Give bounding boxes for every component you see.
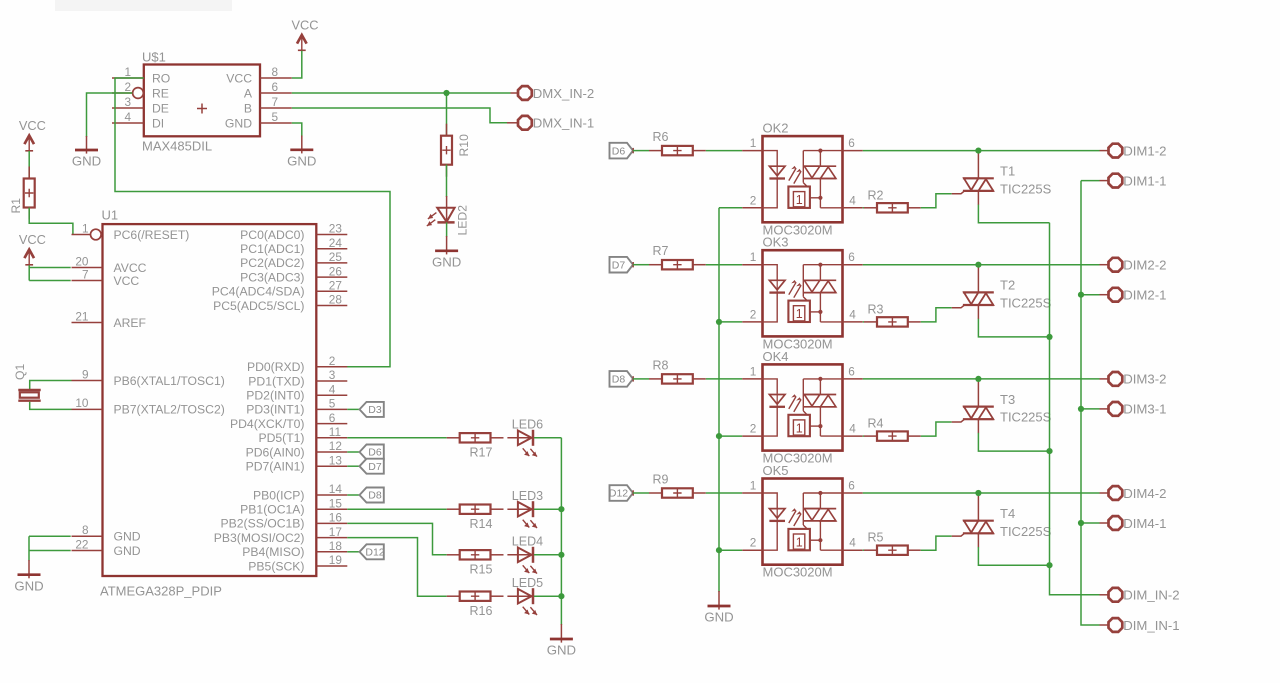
resistor R2	[864, 207, 877, 209]
junction on DIM_IN-2 bus	[1046, 562, 1052, 568]
resistor R1	[28, 167, 30, 179]
svg-text:1: 1	[796, 536, 803, 550]
svg-text:2: 2	[329, 354, 336, 368]
svg-text:T1: T1	[1000, 164, 1015, 179]
triac T2 TIC225S	[963, 265, 1052, 319]
svg-text:11: 11	[329, 425, 341, 439]
svg-text:DIM4-1: DIM4-1	[1123, 516, 1166, 531]
svg-text:VCC: VCC	[226, 71, 252, 85]
svg-text:RO: RO	[152, 71, 170, 85]
triac T1 TIC225S	[963, 151, 1052, 205]
svg-text:GND: GND	[114, 530, 141, 544]
svg-text:7: 7	[82, 267, 89, 281]
svg-text:PD4(XCK/T0): PD4(XCK/T0)	[230, 417, 305, 431]
svg-text:1: 1	[796, 307, 803, 321]
svg-text:PB5(SCK): PB5(SCK)	[248, 559, 304, 573]
pin 26 PC3(ADC3)	[240, 264, 347, 284]
IC U$1 MAX485DIL	[112, 50, 292, 154]
svg-text:19: 19	[329, 553, 342, 567]
tag D8 channel 3	[610, 371, 634, 387]
resistor R6	[649, 150, 662, 152]
resistor R14	[447, 508, 460, 510]
wire LED4 to cathode bus	[534, 554, 561, 556]
wire A-net to R10	[446, 93, 448, 136]
svg-text:D3: D3	[368, 404, 382, 416]
pin 8 GND	[72, 523, 141, 544]
svg-text:LED6: LED6	[512, 418, 543, 432]
triac T3 TIC225S	[963, 379, 1052, 433]
svg-text:R14: R14	[470, 517, 493, 531]
resistor R5	[864, 549, 877, 551]
wire T1 MT1 to DIM_IN-2 bus	[978, 205, 1049, 223]
svg-text:22: 22	[75, 537, 88, 551]
svg-text:PD1(TXD): PD1(TXD)	[248, 374, 304, 388]
svg-text:GND: GND	[114, 544, 141, 558]
tag D6	[347, 451, 359, 453]
svg-text:8: 8	[82, 523, 89, 537]
wire R3 to T2 gate	[921, 308, 952, 322]
ground GND under LED bus	[560, 624, 562, 643]
triac T4 TIC225S	[963, 493, 1052, 547]
wire OK2 pin4 to R2	[863, 207, 864, 209]
pin 3 PD1(TXD)	[248, 368, 347, 388]
svg-text:2: 2	[124, 80, 131, 94]
junction dots on LED cathode bus	[558, 506, 564, 512]
pin 21 AREF	[72, 309, 147, 330]
svg-text:1: 1	[82, 221, 89, 235]
wire pin6 to DIM4-2	[863, 492, 1100, 494]
pin 4 PD2(INT0)	[246, 382, 347, 402]
svg-text:4: 4	[329, 382, 336, 396]
svg-text:27: 27	[329, 279, 342, 293]
resistor R7	[649, 264, 662, 266]
svg-text:DIM4-2: DIM4-2	[1123, 486, 1166, 501]
svg-text:T4: T4	[1000, 506, 1015, 521]
svg-text:21: 21	[75, 309, 88, 323]
wire GND bus vertical	[718, 208, 720, 592]
wire OK5 pin2 to GND bus	[719, 549, 742, 551]
svg-text:LED4: LED4	[512, 535, 543, 549]
svg-text:U$1: U$1	[142, 50, 166, 65]
wire R8 to OK4 pin1	[706, 378, 742, 380]
svg-text:R5: R5	[868, 531, 884, 545]
pin 10 PB7(XTAL2/TOSC2)	[72, 396, 225, 417]
svg-text:PC2(ADC2): PC2(ADC2)	[240, 256, 304, 270]
pad DIM3-2	[1109, 372, 1123, 386]
resistor R10	[446, 124, 448, 136]
wire DIM_IN-1 bus vertical	[1081, 181, 1100, 625]
wire PB1 to R14	[347, 508, 446, 510]
pin 12 PD6(AIN0)	[246, 439, 348, 459]
svg-text:PD7(AIN1): PD7(AIN1)	[246, 460, 305, 474]
wire R4 to T3 gate	[921, 422, 952, 436]
svg-text:R3: R3	[868, 302, 884, 316]
svg-text:18: 18	[329, 539, 343, 553]
wire VCC to R1	[28, 151, 30, 179]
svg-text:4: 4	[124, 110, 131, 124]
tag D6 channel 1	[610, 143, 634, 159]
junction on GND bus	[716, 433, 722, 439]
junction on DIM_IN-1 bus	[1078, 406, 1084, 412]
svg-text:3: 3	[329, 368, 336, 382]
wire XTAL1	[30, 381, 72, 390]
svg-text:OK3: OK3	[763, 235, 789, 250]
svg-text:TIC225S: TIC225S	[1000, 181, 1052, 196]
svg-text:R4: R4	[868, 417, 884, 431]
wire LED cathode bus	[560, 438, 562, 625]
svg-text:R1: R1	[9, 198, 23, 214]
svg-text:D7: D7	[368, 461, 382, 473]
svg-text:PD0(RXD): PD0(RXD)	[247, 360, 305, 374]
svg-text:15: 15	[329, 496, 343, 510]
svg-text:12: 12	[329, 439, 342, 453]
svg-text:VCC: VCC	[19, 232, 46, 247]
junction T2 MT2 on DIM net	[975, 262, 981, 268]
power VCC above R1	[24, 136, 34, 145]
wire T3 MT1 to DIM_IN-2 bus	[978, 433, 1049, 451]
svg-text:MAX485DIL: MAX485DIL	[142, 139, 212, 154]
wire LED5 to cathode bus	[534, 595, 561, 597]
svg-text:GND: GND	[225, 116, 252, 130]
svg-text:23: 23	[329, 222, 343, 236]
svg-text:OK4: OK4	[763, 349, 789, 364]
svg-text:TIC225S: TIC225S	[1000, 524, 1052, 539]
pin 24 PC1(ADC1)	[240, 236, 347, 256]
wire RE to GND	[87, 93, 133, 137]
wire OK4 pin2 to GND bus	[719, 435, 742, 437]
svg-text:4: 4	[849, 193, 856, 207]
svg-text:A: A	[244, 86, 253, 100]
svg-text:D6: D6	[368, 447, 382, 459]
faint background artifact strip	[55, 0, 232, 11]
junction T4 MT2 on DIM net	[975, 490, 981, 496]
wire XTAL2	[30, 402, 72, 410]
wire R9 to OK5 pin1	[706, 492, 742, 494]
optocoupler OK4 MOC3020M	[742, 349, 863, 466]
wire OK4 pin4 to R4	[863, 435, 864, 437]
svg-text:TIC225S: TIC225S	[1000, 410, 1052, 425]
svg-text:D8: D8	[368, 490, 382, 502]
svg-text:2: 2	[750, 307, 757, 321]
svg-text:28: 28	[329, 293, 343, 307]
junction on DIM_IN-2 bus	[1046, 334, 1052, 340]
junction T3 MT2 on DIM net	[975, 376, 981, 382]
svg-text:PC6(/RESET): PC6(/RESET)	[114, 228, 190, 242]
svg-text:PC0(ADC0): PC0(ADC0)	[240, 228, 304, 242]
wire GND pins 8 and 22	[29, 535, 71, 537]
pin 15 PB1(OC1A)	[240, 496, 347, 516]
pin 13 PD7(AIN1)	[246, 453, 348, 473]
wire DIM3-1 to DIM_IN-1 bus	[1100, 408, 1110, 410]
svg-text:1: 1	[750, 479, 757, 493]
svg-text:VCC: VCC	[19, 118, 46, 133]
svg-text:LED3: LED3	[512, 489, 543, 503]
wire PB2 to R15	[347, 523, 446, 554]
wire pin6 to DIM2-2	[863, 264, 1100, 266]
svg-text:AREF: AREF	[114, 316, 147, 330]
wire B net to DMX_IN-1	[292, 108, 507, 123]
power VCC above MAX485 pin8	[297, 35, 307, 44]
pin 11 PD5(T1)	[258, 425, 347, 445]
svg-text:U1: U1	[102, 208, 119, 223]
svg-text:DI: DI	[152, 116, 164, 130]
pin 27 PC4(ADC4/SDA)	[212, 279, 348, 299]
pin 17 PB3(MOSI/OC2)	[214, 525, 348, 545]
svg-text:4: 4	[849, 307, 856, 321]
wire R10 to LED2	[446, 165, 448, 198]
svg-text:PB6(XTAL1/TOSC1): PB6(XTAL1/TOSC1)	[114, 374, 225, 388]
LED LED3	[507, 508, 533, 510]
svg-text:6: 6	[848, 136, 855, 150]
tag D7	[347, 465, 359, 467]
tag D7 channel 2	[610, 257, 634, 273]
wire R2 to T1 gate	[921, 194, 952, 208]
pin 9 PB6(XTAL1/TOSC1)	[72, 367, 225, 388]
resistor R16	[447, 595, 460, 597]
ground GND under LED2	[446, 236, 448, 254]
wire pin5 GND	[292, 123, 302, 137]
svg-text:4: 4	[849, 536, 856, 550]
IC U1 ATMEGA328P_PDIP	[100, 208, 316, 599]
junction on A net	[443, 90, 449, 96]
wire OK3 pin4 to R3	[863, 321, 864, 323]
optocoupler OK5 MOC3020M	[742, 463, 863, 580]
svg-text:DIM_IN-1: DIM_IN-1	[1123, 618, 1179, 633]
pin 1 PC6(/RESET)	[72, 221, 190, 242]
svg-text:PB2(SS/OC1B): PB2(SS/OC1B)	[221, 517, 305, 531]
svg-text:GND: GND	[432, 254, 461, 269]
svg-text:1: 1	[796, 421, 803, 435]
svg-text:VCC: VCC	[291, 18, 318, 33]
svg-text:DIM3-1: DIM3-1	[1123, 402, 1166, 417]
svg-text:MOC3020M: MOC3020M	[763, 565, 833, 580]
svg-text:17: 17	[329, 525, 342, 539]
wire OK2 pin2 to GND bus	[719, 207, 742, 209]
svg-text:5: 5	[272, 110, 279, 124]
svg-text:LED2: LED2	[455, 205, 469, 236]
svg-text:DMX_IN-2: DMX_IN-2	[533, 86, 595, 101]
svg-text:D12: D12	[609, 488, 628, 500]
wire OK5 pin4 to R5	[863, 549, 864, 551]
LED LED6	[507, 437, 533, 439]
svg-text:1: 1	[124, 65, 131, 79]
ground GND under MAX485 pin5	[301, 136, 303, 154]
ground GND below optocouplers	[718, 591, 720, 610]
svg-text:B: B	[244, 101, 252, 115]
wire R7 to OK3 pin1	[706, 264, 742, 266]
svg-text:GND: GND	[547, 643, 576, 658]
svg-text:Q1: Q1	[13, 364, 27, 380]
wire D7 to R7	[633, 264, 649, 266]
pin 22 GND	[72, 537, 141, 558]
svg-text:VCC: VCC	[114, 274, 140, 288]
svg-text:R10: R10	[457, 134, 471, 157]
pad DMX_IN-2	[518, 86, 532, 100]
pad DIM1-2	[1109, 144, 1123, 158]
wire OK3 pin2 to GND bus	[719, 321, 742, 323]
wire LED3 to cathode bus	[534, 508, 561, 510]
svg-text:T2: T2	[1000, 278, 1015, 293]
LED LED4	[507, 554, 533, 556]
svg-text:R15: R15	[470, 563, 493, 577]
svg-text:6: 6	[329, 411, 336, 425]
svg-text:OK5: OK5	[763, 463, 789, 478]
pin 23 PC0(ADC0)	[240, 222, 347, 242]
svg-text:R16: R16	[470, 604, 493, 618]
svg-text:3: 3	[124, 95, 131, 109]
tag D8	[347, 494, 359, 496]
svg-text:PC1(ADC1): PC1(ADC1)	[240, 242, 304, 256]
svg-text:PB0(ICP): PB0(ICP)	[253, 488, 304, 502]
resistor R15	[447, 554, 460, 556]
svg-text:GND: GND	[287, 153, 316, 168]
wire T4 MT1 to DIM_IN-2 bus	[978, 547, 1049, 565]
resistor R8	[649, 378, 662, 380]
svg-text:13: 13	[329, 453, 343, 467]
svg-text:D6: D6	[612, 145, 626, 157]
pad DIM4-2	[1109, 486, 1123, 500]
tag D3	[347, 408, 359, 410]
svg-text:PD6(AIN0): PD6(AIN0)	[246, 445, 305, 459]
wire pin8 VCC	[292, 51, 302, 78]
svg-text:DIM_IN-2: DIM_IN-2	[1123, 588, 1179, 603]
LED LED2	[427, 196, 470, 236]
pad DIM2-1	[1109, 288, 1123, 302]
svg-text:16: 16	[329, 511, 343, 525]
pin 20 AVCC	[72, 254, 147, 275]
pin 28 PC5(ADC5/SCL)	[213, 293, 347, 313]
tag D12 channel 4	[610, 485, 634, 501]
svg-text:PB1(OC1A): PB1(OC1A)	[240, 503, 304, 517]
pin 6 PD4(XCK/T0)	[230, 411, 347, 431]
svg-text:GND: GND	[14, 578, 43, 593]
ground GND under MAX485 left	[86, 136, 88, 154]
wire DIM1-1 to DIM_IN-1 bus	[1100, 180, 1110, 182]
wire DIM2-1 to DIM_IN-1 bus	[1100, 294, 1110, 296]
svg-text:PC5(ADC5/SCL): PC5(ADC5/SCL)	[213, 299, 304, 313]
svg-text:6: 6	[272, 80, 279, 94]
svg-text:10: 10	[75, 396, 89, 410]
junction on DIM_IN-1 bus	[1078, 520, 1084, 526]
svg-text:DIM1-2: DIM1-2	[1123, 143, 1166, 158]
wire RO to ATMEGA PD0/RXD	[115, 78, 390, 367]
junction on GND bus	[716, 319, 722, 325]
svg-text:2: 2	[750, 422, 757, 436]
pad DIM2-2	[1109, 258, 1123, 272]
svg-text:PD5(T1): PD5(T1)	[258, 431, 304, 445]
svg-text:RE: RE	[152, 86, 169, 100]
resistor R4	[864, 435, 877, 437]
svg-text:R17: R17	[470, 446, 493, 460]
wire R1 to RESET pin	[29, 208, 73, 235]
svg-text:20: 20	[75, 254, 89, 268]
wire DIM4-1 to DIM_IN-1 bus	[1100, 522, 1110, 524]
wire D8 to R8	[633, 378, 649, 380]
pad DIM_IN-1	[1109, 618, 1123, 632]
svg-text:R9: R9	[653, 473, 669, 487]
LED LED5	[507, 595, 533, 597]
svg-text:25: 25	[329, 250, 343, 264]
svg-text:2: 2	[750, 193, 757, 207]
wire D12 to R9	[633, 492, 649, 494]
svg-text:D7: D7	[612, 259, 626, 271]
svg-text:T3: T3	[1000, 392, 1015, 407]
pad DIM1-1	[1109, 174, 1123, 188]
wire pin6 to DIM3-2	[863, 378, 1100, 380]
svg-text:R2: R2	[868, 188, 884, 202]
pin 25 PC2(ADC2)	[240, 250, 347, 270]
pad DMX_IN-1	[518, 116, 532, 130]
junction T1 MT2 on DIM net	[975, 148, 981, 154]
svg-text:PB7(XTAL2/TOSC2): PB7(XTAL2/TOSC2)	[114, 403, 225, 417]
svg-text:DIM2-2: DIM2-2	[1123, 258, 1166, 273]
svg-text:9: 9	[82, 367, 89, 381]
svg-text:4: 4	[849, 422, 856, 436]
pin 5 PD3(INT1)	[246, 397, 347, 417]
wire LED6 to cathode bus	[534, 437, 561, 439]
pin 18 PB4(MISO)	[242, 539, 347, 559]
svg-text:2: 2	[750, 536, 757, 550]
pad DIM3-1	[1109, 402, 1123, 416]
wire VCC to AVCC and VCC pins	[28, 265, 30, 280]
ground GND below ATMEGA left	[28, 560, 30, 578]
svg-text:LED5: LED5	[512, 576, 543, 590]
svg-text:6: 6	[848, 250, 855, 264]
svg-text:D8: D8	[612, 374, 626, 386]
svg-text:1: 1	[750, 250, 757, 264]
svg-text:AVCC: AVCC	[114, 261, 147, 275]
pin 7 VCC	[72, 267, 140, 288]
power VCC for AVCC	[24, 250, 34, 259]
wire DIM_IN-2 bus vertical	[1050, 223, 1100, 595]
wire R6 to OK2 pin1	[706, 150, 742, 152]
wire pin6 to DIM1-2	[863, 150, 1100, 152]
svg-text:8: 8	[272, 65, 279, 79]
junction on DIM_IN-1 bus	[1078, 292, 1084, 298]
svg-text:6: 6	[848, 479, 855, 493]
junction on GND bus	[716, 547, 722, 553]
svg-text:D12: D12	[365, 547, 384, 559]
svg-text:DMX_IN-1: DMX_IN-1	[533, 116, 595, 131]
svg-text:DIM2-1: DIM2-1	[1123, 288, 1166, 303]
svg-text:14: 14	[329, 482, 343, 496]
svg-text:DIM1-1: DIM1-1	[1123, 173, 1166, 188]
svg-text:R6: R6	[653, 130, 669, 144]
svg-text:DE: DE	[152, 101, 169, 115]
wire T2 MT1 to DIM_IN-2 bus	[978, 319, 1049, 337]
wire R5 to T4 gate	[921, 536, 952, 550]
svg-text:R7: R7	[653, 244, 669, 258]
svg-text:GND: GND	[72, 154, 101, 169]
svg-text:PC3(ADC3): PC3(ADC3)	[240, 270, 304, 284]
svg-text:OK2: OK2	[763, 121, 789, 136]
pin 2 PD0(RXD)	[247, 354, 347, 374]
resistor R17	[447, 437, 460, 439]
svg-text:26: 26	[329, 264, 343, 278]
pin 14 PB0(ICP)	[253, 482, 347, 502]
svg-text:6: 6	[848, 364, 855, 378]
wire PB3 to R16	[347, 538, 446, 597]
svg-text:1: 1	[750, 364, 757, 378]
junction on DIM_IN-2 bus	[1046, 448, 1052, 454]
wire D6 to R6	[633, 150, 649, 152]
svg-text:5: 5	[329, 397, 336, 411]
svg-text:TIC225S: TIC225S	[1000, 296, 1052, 311]
svg-text:PB4(MISO): PB4(MISO)	[242, 545, 304, 559]
wire A net to DMX_IN-2	[292, 92, 511, 94]
svg-text:24: 24	[329, 236, 343, 250]
svg-text:ATMEGA328P_PDIP: ATMEGA328P_PDIP	[100, 583, 222, 598]
